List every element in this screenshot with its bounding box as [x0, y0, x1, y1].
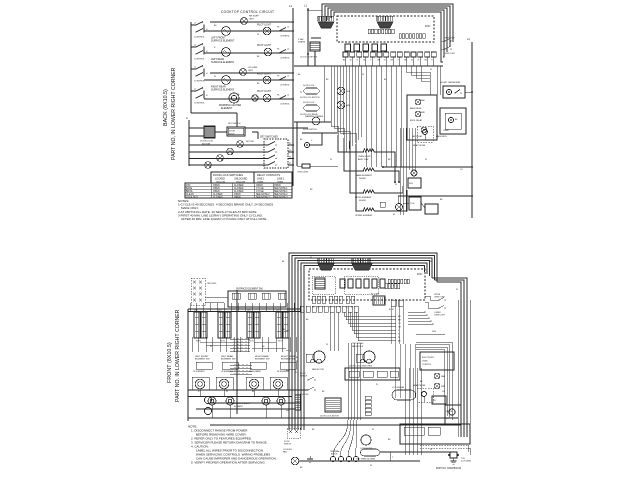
wire tod links: [397, 196, 399, 203]
indicator lock switch 3: [217, 155, 224, 162]
svg-text:OVEN LIGHT: OVEN LIGHT: [444, 53, 456, 55]
wire right cross y196: [398, 195, 472, 197]
svg-text:W: W: [295, 372, 297, 374]
ground symbol tod: [453, 458, 455, 461]
svg-text:OVEN LIGHT: OVEN LIGHT: [358, 156, 371, 158]
clock output component row: [345, 44, 351, 51]
vertical comb center: [330, 66, 332, 126]
svg-text:SWITCH: SWITCH: [300, 376, 308, 378]
svg-text:LOCK SW: LOCK SW: [300, 394, 309, 396]
svg-text:BROIL: BROIL: [186, 191, 194, 193]
svg-text:SEE NOTE 2: SEE NOTE 2: [274, 194, 288, 196]
wire row6: [204, 98, 293, 100]
svg-text:OPEN: OPEN: [256, 185, 263, 187]
connector block mid: [373, 296, 385, 305]
door switch loop top panel: [302, 133, 322, 145]
svg-text:DOOR LOCK SWITCHES: DOOR LOCK SWITCHES: [213, 173, 243, 177]
wire horizontal stubs on left bundle: [286, 329, 289, 331]
wire dlb bundle rows: [408, 311, 425, 313]
svg-text:OVEN: OVEN: [443, 130, 449, 132]
meat probe dashed top panel: [417, 126, 433, 142]
svg-text:LR SURF: LR SURF: [248, 67, 258, 69]
motor fan right bottom: [360, 359, 372, 362]
svg-text:P4: P4: [277, 27, 279, 29]
right bundle verticals lower cluster: [404, 368, 406, 455]
svg-text:DLB: DLB: [346, 91, 351, 93]
wire door switch drop: [296, 122, 298, 166]
svg-text:LR ELEMENT: LR ELEMENT: [221, 371, 234, 373]
svg-text:W: W: [370, 465, 372, 467]
svg-text:DLB: DLB: [432, 331, 437, 333]
svg-text:HI LIMIT THERMOSTAT: HI LIMIT THERMOSTAT: [440, 81, 461, 84]
svg-text:W: W: [326, 344, 328, 346]
svg-text:OPEN: OPEN: [234, 194, 241, 196]
wire row2: [204, 30, 293, 32]
svg-text:SURFACE ELEMENT SW: SURFACE ELEMENT SW: [236, 288, 263, 291]
svg-text:W: W: [296, 361, 298, 363]
indicator RR surface unit light: [241, 18, 248, 25]
right cluster component c: [432, 396, 446, 404]
connector plug P2: [377, 22, 393, 28]
svg-text:PART NO. IN LOWER RIGHT CORNER: PART NO. IN LOWER RIGHT CORNER: [175, 309, 181, 402]
svg-text:M: M: [393, 214, 395, 216]
wire row5: [204, 79, 293, 81]
svg-text:UNLOCKED: UNLOCKED: [234, 177, 248, 180]
switch row6 right: [278, 98, 280, 100]
wire bottom run: [299, 460, 420, 462]
door lock motor bottom: [325, 398, 341, 412]
svg-text:OVEN LIGHT: OVEN LIGHT: [434, 314, 446, 316]
wire lower bus 2: [210, 424, 458, 426]
element broil coil: [363, 190, 374, 193]
wire stubs terminal to bus: [345, 57, 347, 66]
svg-text:CONTROL: CONTROL: [194, 59, 205, 61]
vertical drops left of comb: [323, 66, 325, 122]
indicator LR surface unit light: [240, 69, 247, 76]
svg-text:W: W: [372, 429, 374, 431]
oven element stack wires left: [338, 135, 364, 152]
svg-text:DOOR LOCK SWITCH: DOOR LOCK SWITCH: [300, 97, 320, 99]
svg-text:CONTROL: CONTROL: [280, 58, 291, 60]
wire bundle nest bottom schematic: [289, 253, 437, 430]
vertical right pair: [436, 66, 438, 95]
oven element cluster box: [440, 108, 466, 134]
indicator MDL: [337, 101, 345, 109]
svg-text:ASSY 40W: ASSY 40W: [358, 158, 368, 161]
svg-text:OPEN: OPEN: [213, 185, 220, 187]
tod cooling component: [450, 452, 457, 458]
svg-text:W: W: [430, 449, 432, 451]
svg-text:BAKE RELAY: BAKE RELAY: [410, 107, 422, 110]
wire feeds to left fan motor: [329, 312, 331, 351]
svg-text:SWITCH: SWITCH: [284, 444, 292, 446]
transformer bottom: [315, 278, 325, 289]
svg-text:STOP: STOP: [229, 134, 235, 136]
svg-text:CYCLE: CYCLE: [256, 188, 264, 190]
svg-text:CONTROL: CONTROL: [194, 81, 205, 83]
oven element stack wires right: [374, 152, 395, 182]
svg-text:W: W: [376, 384, 378, 386]
svg-text:W: W: [300, 92, 302, 94]
indicator lock switch 2: [227, 148, 234, 155]
svg-text:W: W: [395, 184, 397, 186]
svg-text:TWO SPEED: TWO SPEED: [352, 343, 364, 345]
wire row1: [210, 21, 293, 23]
element left rear surface: [222, 48, 231, 57]
svg-text:3400W: 3400W: [359, 200, 366, 202]
svg-text:W: W: [330, 159, 332, 161]
wire element drops: [199, 389, 201, 397]
wire bottom upper run: [380, 451, 452, 453]
svg-text:L1: L1: [289, 4, 293, 8]
svg-text:SEE NOTE 1: SEE NOTE 1: [274, 191, 288, 193]
wire bottom of left bus: [191, 112, 237, 114]
box TOD: [409, 197, 421, 210]
svg-text:PILOT LIGHT: PILOT LIGHT: [257, 25, 272, 27]
wire bundle nest top: [322, 4, 453, 42]
svg-text:CLOSED: CLOSED: [234, 185, 244, 187]
wire elbows to oven lights: [425, 296, 439, 300]
svg-text:CONTROL: CONTROL: [280, 36, 291, 38]
wire right cross y167: [383, 166, 472, 168]
EOC box bottom: [420, 352, 454, 370]
svg-text:P3: P3: [289, 150, 291, 152]
relay circle a: [415, 99, 421, 105]
svg-text:CLOSED: CLOSED: [234, 191, 244, 193]
wire ground block to header: [205, 296, 228, 298]
wire lock row3: [189, 158, 268, 160]
svg-text:CLOSED: CLOSED: [234, 188, 244, 190]
svg-text:PILOT LIGHT: PILOT LIGHT: [257, 45, 272, 47]
table body: [185, 183, 292, 198]
wire door lock left bus: [188, 120, 190, 166]
svg-text:OPEN: OPEN: [274, 185, 281, 187]
svg-text:SURFACE ELEMENT: SURFACE ELEMENT: [211, 61, 235, 64]
relay bank bottom clock row2: [385, 283, 387, 289]
element circles left stack: [204, 396, 211, 403]
element left front surface: [222, 27, 231, 36]
svg-text:W: W: [456, 289, 458, 291]
bottom right outer box: [400, 424, 470, 444]
meat probe bottom dashed: [417, 388, 433, 402]
svg-text:ELEMENT SW: ELEMENT SW: [255, 359, 270, 361]
motor fan left bottom: [310, 359, 322, 362]
relay set switches box: [264, 139, 288, 168]
wire curl bundle to terminal block: [333, 420, 348, 456]
terminal row bottom clock: [312, 296, 316, 303]
svg-text:UPPER ELEMENT: UPPER ELEMENT: [355, 215, 373, 217]
dashed sub-box under P4: [344, 276, 378, 294]
wire bank bus 2: [188, 311, 300, 313]
svg-text:RELAY CONTACTS: RELAY CONTACTS: [257, 173, 280, 177]
ground symbol bottom left: [309, 456, 311, 459]
svg-text:OVEN LIGHT: OVEN LIGHT: [297, 172, 309, 174]
svg-text:RR ELEMENT: RR ELEMENT: [249, 371, 262, 373]
svg-text:DOOR LOCK: DOOR LOCK: [303, 102, 315, 104]
indicator lock switch 1: [237, 141, 244, 148]
svg-text:DOC: DOC: [425, 25, 431, 28]
vertical drops mid-right group: [365, 66, 367, 167]
wire right verticals bottom panel: [457, 300, 459, 437]
motor conv circle: [361, 435, 371, 445]
svg-text:SEE NOTE 1: SEE NOTE 1: [274, 188, 288, 190]
svg-text:DOOR: DOOR: [229, 131, 236, 133]
svg-text:FRONT (8X10.5): FRONT (8X10.5): [167, 342, 173, 383]
svg-text:C: C: [186, 116, 188, 120]
switch surface control 3: [195, 68, 197, 70]
wire lock row1: [189, 144, 268, 146]
svg-text:OFF: OFF: [186, 185, 191, 187]
svg-text:W: W: [257, 34, 259, 36]
wire bank bus 1: [188, 308, 300, 310]
door switch grid near notes: [287, 428, 300, 438]
terminal strip row under clock: [343, 52, 348, 57]
relay box stop: [227, 127, 245, 136]
svg-text:P4: P4: [277, 76, 279, 78]
svg-text:L2: L2: [287, 76, 289, 78]
element right rear surface: [222, 76, 231, 85]
svg-text:SET SWITCHES: SET SWITCHES: [260, 136, 278, 139]
svg-text:L1: L1: [194, 45, 196, 47]
control board DOC dashed box top: [337, 16, 434, 42]
wire riser right of terminal block: [389, 452, 391, 461]
motor convection capsule: [392, 390, 416, 400]
wire switch bank drops: [191, 337, 193, 352]
svg-text:UNIT: UNIT: [249, 19, 255, 21]
connector plug P3: [318, 264, 334, 270]
wire lock row2: [189, 151, 268, 153]
wire row4: [210, 72, 293, 74]
motor left of TOD: [396, 204, 403, 211]
connector plug P4: [352, 264, 372, 270]
svg-text:BK W: BK W: [389, 309, 394, 311]
switch row5 right: [278, 79, 280, 81]
wire bundle elbow right: [437, 282, 461, 437]
latch box bottom right: [445, 405, 461, 425]
svg-text:BAKE: BAKE: [186, 187, 193, 190]
switch bank infinite switch assemblies: [194, 312, 200, 338]
svg-text:W: W: [210, 346, 212, 348]
capsule two speed blower: [361, 449, 380, 456]
svg-text:WARMING DRAWER: WARMING DRAWER: [232, 402, 251, 405]
motor cooling fan bottom left: [291, 457, 299, 465]
vertical long drops right: [385, 66, 387, 167]
switch surface control 2: [195, 46, 197, 48]
svg-text:L2: L2: [287, 49, 289, 51]
relay circle b: [415, 111, 421, 117]
svg-text:ELECTRONIC: ELECTRONIC: [422, 357, 435, 359]
svg-text:TOD: TOD: [410, 203, 415, 205]
indicator lock switch 4: [205, 162, 212, 169]
svg-text:P4: P4: [289, 156, 291, 158]
svg-text:AFTER 40 MIN. LINE 1(GRAY) CYC: AFTER 40 MIN. LINE 1(GRAY) CYCLING ONLY …: [181, 217, 267, 221]
switch door bottom left b: [307, 389, 308, 390]
svg-text:FAN RELAY: FAN RELAY: [412, 135, 423, 138]
svg-text:DOOR LOCK: DOOR LOCK: [303, 85, 315, 87]
svg-text:LINE 1: LINE 1: [257, 177, 265, 180]
connector plug P1: [318, 22, 334, 28]
terminal block dashed ground: [191, 278, 205, 305]
svg-text:CLOSED: CLOSED: [213, 197, 223, 199]
wire element row horizontals: [188, 389, 308, 391]
svg-text:SET SWITCH: SET SWITCH: [228, 123, 241, 125]
indicator DLB: [337, 87, 345, 95]
svg-text:DOC: DOC: [417, 273, 423, 276]
element circles row2: [208, 397, 216, 405]
door lock switches box bottom: [345, 368, 400, 380]
right mid verticals bottom panel: [390, 299, 392, 344]
small sw box right of elements: [380, 202, 385, 207]
svg-text:FAN: FAN: [283, 451, 287, 454]
svg-text:W: W: [430, 69, 432, 71]
relay small circle above tod: [411, 170, 417, 176]
junction grid center upper: [230, 338, 250, 340]
svg-text:TRANS: TRANS: [298, 41, 306, 44]
thermostat hi-limit cluster: [443, 86, 465, 98]
svg-text:LOCKED: LOCKED: [215, 177, 225, 180]
svg-text:W: W: [226, 391, 228, 393]
wire L1 feed vertical: [307, 8, 309, 66]
wire stop to set box: [252, 131, 258, 133]
control board DOC dashed box bottom: [309, 269, 425, 300]
svg-text:CLOCK OUTPUTS: CLOCK OUTPUTS: [300, 57, 318, 59]
svg-text:W: W: [425, 159, 427, 161]
boxes under switch bank: [196, 362, 212, 369]
dashed stubs bottom right: [420, 444, 468, 446]
svg-text:RIGHT REAR: RIGHT REAR: [255, 355, 269, 358]
svg-text:SEE NOTE 3: SEE NOTE 3: [256, 197, 270, 199]
bottom right inner component a: [404, 427, 424, 435]
svg-text:BACK (8X10.5): BACK (8X10.5): [163, 89, 169, 126]
svg-text:P5 CONN: P5 CONN: [371, 294, 380, 296]
svg-text:ELEMENT: ELEMENT: [234, 406, 244, 408]
svg-text:ELEMENT: ELEMENT: [221, 107, 233, 110]
wire center bundle down to door lock: [347, 343, 349, 420]
svg-text:FAN MOTOR: FAN MOTOR: [312, 368, 324, 371]
hatch resistor bottom left: [295, 394, 300, 410]
right mid component rects bottom panel: [391, 300, 396, 306]
wire assembly link rows: [200, 341, 230, 343]
svg-text:P2: P2: [289, 143, 291, 145]
wire horizontals mid top panel: [302, 132, 338, 134]
svg-text:SEE NOTE 3: SEE NOTE 3: [274, 197, 288, 199]
svg-text:BROIL ELEMENT: BROIL ELEMENT: [355, 197, 372, 199]
switch set contact 1: [267, 144, 269, 146]
switch set contact 3: [267, 158, 269, 160]
svg-text:L1: L1: [194, 89, 196, 91]
element dual circles row: [195, 379, 205, 389]
element warming center: [229, 93, 239, 103]
svg-text:CONTROL: CONTROL: [280, 85, 291, 87]
svg-text:P4: P4: [277, 95, 279, 97]
svg-text:L2: L2: [287, 95, 289, 97]
svg-text:5. VERIFY PROPER OPERATION AFT: 5. VERIFY PROPER OPERATION AFTER SERVICI…: [191, 461, 266, 465]
svg-text:OPEN: OPEN: [234, 197, 241, 199]
switch surface control 1: [195, 24, 197, 26]
wire left supply bus: [190, 22, 192, 113]
motor door lock: [204, 126, 215, 138]
element bake coil: [363, 168, 374, 171]
right cluster component d: [449, 409, 455, 415]
svg-text:PART NO. 8101P546-60: PART NO. 8101P546-60: [436, 467, 462, 470]
svg-text:ELEMENT SW: ELEMENT SW: [221, 359, 236, 361]
svg-text:ELEMENT SW: ELEMENT SW: [195, 359, 210, 361]
wire L1 bus vertical: [292, 8, 294, 186]
wire bank verticals: [189, 303, 191, 312]
svg-text:SET SW: SET SW: [246, 141, 254, 143]
svg-text:L1: L1: [194, 23, 196, 25]
svg-text:W: W: [350, 60, 352, 62]
svg-text:GROUND: GROUND: [207, 283, 217, 285]
wire left border bottom panel: [187, 309, 189, 421]
svg-text:OVEN: OVEN: [422, 361, 428, 363]
surface element header box: [228, 291, 286, 307]
svg-text:(COOLING): (COOLING): [461, 461, 471, 463]
element upper coil: [363, 208, 374, 211]
svg-text:COOKTOP CONTROL CIRCUIT: COOKTOP CONTROL CIRCUIT: [221, 10, 274, 14]
pilot light row5: [263, 76, 271, 84]
relay bank A: [368, 29, 370, 34]
element oven light coil: [363, 149, 374, 152]
transformer 9VAC: [310, 42, 320, 51]
svg-text:PILOT LIGHT: PILOT LIGHT: [257, 74, 272, 76]
svg-text:LF ELEMENT: LF ELEMENT: [193, 371, 206, 373]
relay bank B: [399, 34, 401, 39]
svg-text:DOOR LOCK MOTOR: DOOR LOCK MOTOR: [320, 416, 340, 418]
pilot light row6: [252, 95, 258, 101]
wire L1 branch to bundle: [308, 9, 322, 11]
svg-text:TWO SPEED BLOWER: TWO SPEED BLOWER: [356, 459, 376, 461]
pilot light row2: [263, 27, 271, 35]
svg-text:OVEN LIGHT: OVEN LIGHT: [434, 296, 446, 298]
svg-text:CONTROL: CONTROL: [422, 364, 431, 366]
svg-text:CONTROL: CONTROL: [194, 103, 205, 105]
terminal row mid right bottom: [300, 306, 304, 312]
svg-text:L2: L2: [287, 27, 289, 29]
svg-text:W: W: [214, 76, 216, 78]
wire comb elbows to element nest: [331, 126, 338, 135]
svg-text:OPEN: OPEN: [213, 191, 220, 193]
relay column bottom mid: [365, 396, 371, 399]
svg-text:CLEAN: CLEAN: [186, 193, 194, 196]
box tod upper: [408, 178, 421, 188]
pilot light row3: [264, 48, 272, 56]
right cluster component b: [434, 383, 440, 389]
switch row2 right: [278, 30, 280, 32]
svg-text:SURFACE ELEMENT: SURFACE ELEMENT: [211, 89, 235, 92]
wire lower bus 1: [188, 417, 458, 419]
switch surface control 4: [195, 90, 197, 92]
component box right mid: [407, 95, 437, 140]
svg-text:RR SURF: RR SURF: [249, 16, 259, 18]
relay circle c: [421, 127, 427, 133]
svg-text:P5: P5: [289, 163, 291, 165]
svg-text:W: W: [310, 257, 312, 259]
svg-text:P4: P4: [277, 49, 279, 51]
table door lock switches relay contacts header: [211, 172, 292, 183]
svg-text:DOOR SWITCH: DOOR SWITCH: [303, 129, 317, 131]
wire main bus under clock: [294, 65, 443, 67]
svg-text:W: W: [411, 60, 413, 62]
junction grid center lower: [230, 364, 252, 366]
wire center vertical bottom: [236, 290, 238, 414]
svg-text:DLR: DLR: [409, 183, 414, 185]
svg-text:LEFT REAR: LEFT REAR: [221, 355, 233, 358]
svg-text:SEE NOTE 2: SEE NOTE 2: [256, 194, 270, 196]
svg-text:CONTROL: CONTROL: [280, 104, 291, 106]
switch set contact 2: [267, 151, 269, 153]
wire dlb: [416, 333, 445, 335]
